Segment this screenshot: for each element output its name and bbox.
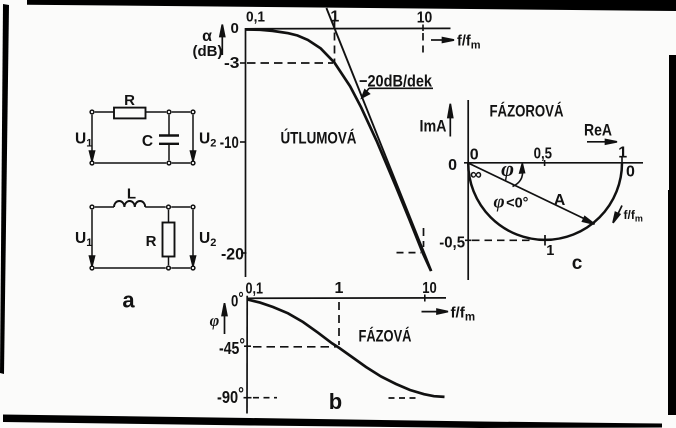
svg-text:ImA: ImA: [420, 117, 447, 136]
U2 voltage arrow (RC): [190, 115, 195, 162]
tick 10 (top axis): [422, 25, 424, 32]
svg-text:φ<0°: φ<0°: [494, 192, 529, 213]
node: input top terminal (RC): [90, 110, 94, 114]
tick -20: [241, 252, 247, 254]
U2 voltage arrow (LR): [190, 210, 195, 267]
tick 10 (phase axis): [424, 295, 426, 302]
svg-text:10: 10: [422, 280, 437, 297]
wire: LR top right of L: [145, 206, 166, 208]
svg-text:ReA: ReA: [584, 121, 612, 140]
wire: RC top right of R: [146, 111, 167, 113]
svg-text:0: 0: [626, 163, 635, 180]
svg-text:A: A: [554, 192, 566, 209]
dashed vertical at f=1 (top): [334, 20, 336, 63]
dashed vertical at f=10 upper (top): [422, 33, 424, 53]
f axis (horizontal, phase): [247, 297, 446, 299]
dashed vertical at f=10 near -20 dB: [423, 228, 425, 247]
ImA axis (vertical): [467, 100, 469, 280]
wire: RC top left: [95, 111, 114, 113]
svg-text:-3: -3: [224, 55, 240, 72]
A phasor arrow: [468, 163, 594, 224]
svg-text:(dB): (dB): [193, 43, 223, 60]
wire: R shunt top lead: [168, 210, 170, 223]
svg-text:C: C: [142, 133, 153, 150]
alpha axis (vertical): [245, 28, 247, 277]
tick 0,5: [544, 160, 546, 166]
tick -90: [244, 397, 252, 399]
capacitor C: [159, 115, 179, 160]
svg-text:L: L: [127, 186, 136, 203]
dashed level -0,5 (ImA): [472, 239, 533, 241]
dashed level -90 left segment: [253, 397, 277, 399]
svg-text:R: R: [124, 92, 135, 109]
svg-text:0,1: 0,1: [246, 281, 264, 298]
phi angle arc arrow: [513, 164, 525, 187]
f/fm direction arrow (locus): [613, 206, 622, 223]
inductor L: [114, 201, 145, 207]
alpha axis direction arrow: [220, 25, 225, 56]
resistor R (series, circuit a): [114, 108, 146, 119]
node: bottom junction (LR): [167, 266, 171, 270]
svg-text:R: R: [146, 233, 157, 250]
ImA direction arrow: [448, 104, 453, 137]
svg-text:0,5: 0,5: [534, 145, 552, 162]
node: top junction (RC): [167, 110, 171, 114]
wire: LR top left: [95, 206, 114, 208]
node: input top terminal (LR): [90, 205, 94, 209]
svg-text:0°: 0°: [231, 289, 244, 311]
svg-text:φ: φ: [501, 156, 514, 181]
svg-text:-90°: -90°: [217, 384, 244, 408]
wire: LR junction to output: [171, 206, 190, 208]
node: output bottom terminal (RC): [191, 161, 195, 165]
svg-text:c: c: [572, 253, 583, 274]
node: input bottom terminal (LR): [90, 266, 94, 270]
magnitude response curve: [246, 30, 431, 272]
-20dB/dek leader line: [362, 88, 433, 98]
svg-text:FÁZOROVÁ: FÁZOROVÁ: [490, 102, 564, 121]
tick at locus bottom (f=1): [544, 235, 546, 246]
svg-text:b: b: [329, 389, 342, 414]
svg-text:FÁZOVÁ: FÁZOVÁ: [359, 327, 412, 346]
wire: LR bottom junction to output: [171, 267, 190, 269]
tick -0,5: [465, 239, 472, 241]
ReA direction arrow: [587, 140, 617, 145]
svg-text:1: 1: [546, 243, 554, 259]
svg-text:-10: -10: [220, 133, 239, 152]
dashed level -90 right segment: [389, 397, 421, 399]
svg-text:0: 0: [230, 20, 238, 37]
wire: RC bottom junction to output: [172, 162, 190, 164]
tick -3: [240, 62, 246, 64]
wire: R shunt bottom lead: [168, 257, 170, 266]
svg-text:a: a: [122, 288, 135, 313]
wire: RC junction to output: [172, 111, 190, 113]
phase response curve: [248, 300, 445, 397]
f/fm axis arrow (top): [431, 38, 454, 43]
U1 voltage arrow (LR): [89, 210, 94, 267]
dashed vertical at f=1 (phase): [338, 302, 340, 345]
phi axis direction arrow: [222, 303, 227, 334]
f axis (horizontal, 0 dB line): [245, 27, 450, 29]
tick -45: [244, 345, 251, 347]
-20dB/dek asymptote line: [326, 8, 431, 271]
svg-text:-45°: -45°: [219, 335, 245, 359]
node: input bottom terminal (RC): [90, 161, 94, 165]
node: output top terminal (RC): [191, 110, 195, 114]
tick 1 (ReA): [621, 158, 623, 163]
node: output bottom terminal (LR): [191, 266, 195, 270]
f/fm axis arrow (phase): [422, 309, 449, 314]
node: top junction (LR): [167, 205, 171, 209]
Nyquist semicircle locus: [468, 163, 622, 240]
node: output top terminal (LR): [191, 205, 195, 209]
tick -10: [240, 141, 246, 143]
svg-text:φ: φ: [210, 311, 220, 330]
svg-text:10: 10: [417, 9, 433, 26]
svg-text:-0,5: -0,5: [439, 235, 465, 252]
ReA axis (horizontal): [464, 162, 643, 164]
wire: LR bottom: [95, 267, 166, 269]
dashed level -45 deg: [253, 346, 336, 348]
svg-text:0: 0: [448, 157, 457, 174]
resistor R (shunt, circuit a): [163, 223, 175, 257]
svg-text:ÚTLUMOVÁ: ÚTLUMOVÁ: [281, 129, 357, 148]
dashed level -20 dB: [397, 252, 422, 254]
svg-text:1: 1: [335, 280, 344, 297]
U1 voltage arrow (RC): [89, 115, 94, 162]
svg-text:0,1: 0,1: [246, 8, 265, 25]
svg-text:-20: -20: [221, 245, 244, 264]
phi axis (vertical): [246, 296, 248, 414]
node: bottom junction (RC): [167, 161, 171, 165]
svg-text:0: 0: [470, 146, 479, 163]
wire: RC bottom: [95, 162, 166, 164]
dashed level -3 dB: [247, 62, 333, 64]
